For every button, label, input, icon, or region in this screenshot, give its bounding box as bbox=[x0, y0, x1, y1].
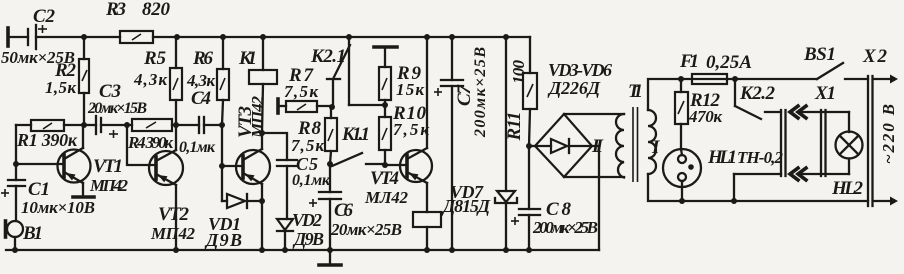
wire: top supply rail bbox=[153, 36, 530, 38]
transformer T1 bbox=[591, 81, 660, 182]
svg-text:С2: С2 bbox=[33, 6, 56, 27]
lamp HL2 bbox=[831, 112, 864, 199]
svg-text:7,5к: 7,5к bbox=[284, 82, 318, 101]
svg-text:С1: С1 bbox=[28, 179, 50, 200]
svg-text:20мк×15В: 20мк×15В bbox=[87, 100, 147, 117]
resistor R2 bbox=[45, 37, 89, 125]
svg-text:0,25А: 0,25А bbox=[706, 52, 752, 73]
svg-text:К1.1: К1.1 bbox=[341, 124, 370, 145]
ground bar left of C2 bbox=[6, 28, 10, 46]
svg-text:R4 390к: R4 390к bbox=[127, 133, 173, 152]
svg-text:4,3к: 4,3к bbox=[186, 71, 215, 90]
svg-text:0,1мк: 0,1мк bbox=[179, 139, 216, 156]
node bbox=[219, 163, 225, 169]
node bbox=[679, 198, 685, 204]
wire K2.1 column to R9/R10 node bbox=[349, 104, 385, 106]
svg-text:7,5к: 7,5к bbox=[291, 136, 324, 155]
resistor R1 bbox=[16, 120, 84, 150]
transistor VT1 bbox=[16, 125, 129, 195]
ground below rail bbox=[319, 250, 341, 265]
resistor R11 bbox=[504, 37, 537, 146]
svg-text:В1: В1 bbox=[22, 223, 43, 244]
svg-text:R1 390к: R1 390к bbox=[16, 130, 78, 150]
svg-text:Д226Д: Д226Д bbox=[547, 78, 601, 98]
svg-text:7,5к: 7,5к bbox=[393, 120, 429, 139]
capacitor C2 bbox=[1, 6, 75, 67]
neon lamp HL1 bbox=[663, 147, 784, 201]
svg-text:VТ1: VТ1 bbox=[93, 156, 123, 177]
connector X1 bbox=[734, 83, 849, 180]
svg-text:МЛ42: МЛ42 bbox=[364, 188, 409, 207]
resistor R5 bbox=[133, 37, 182, 125]
svg-text:4,3к: 4,3к bbox=[133, 70, 167, 89]
capacitor C7 bbox=[434, 37, 489, 250]
svg-text:R11: R11 bbox=[504, 112, 525, 142]
svg-text:820: 820 bbox=[142, 0, 171, 20]
svg-text:Д9В: Д9В bbox=[292, 229, 324, 249]
node bbox=[174, 34, 180, 40]
node bbox=[81, 34, 87, 40]
wire bbox=[735, 78, 817, 80]
wire bbox=[36, 36, 120, 38]
svg-text:200мк×25В: 200мк×25В bbox=[532, 218, 598, 237]
wire: bottom common rail bbox=[6, 249, 599, 251]
svg-text:Х2: Х2 bbox=[862, 46, 888, 67]
transistor VT2 bbox=[149, 125, 196, 243]
wire collector node to C5 bbox=[262, 133, 287, 160]
node bbox=[12, 247, 18, 253]
capacitor C8 bbox=[511, 146, 598, 250]
zener VD7 bbox=[441, 37, 517, 250]
transistor VT3 bbox=[222, 96, 270, 185]
node bbox=[259, 247, 265, 253]
node bbox=[219, 122, 225, 128]
svg-text:Д815Д: Д815Д bbox=[441, 196, 491, 216]
capacitor C5 bbox=[277, 154, 331, 219]
wire R8 node down to C6 bbox=[329, 164, 331, 192]
resistor R12 bbox=[675, 79, 722, 149]
connector X2 bbox=[862, 46, 898, 206]
diode VD1 bbox=[204, 194, 262, 250]
node bbox=[526, 247, 532, 253]
svg-text:С5: С5 bbox=[296, 154, 318, 174]
capacitor C6 bbox=[309, 192, 402, 250]
node bbox=[173, 247, 179, 253]
wire bbox=[15, 125, 17, 180]
svg-text:I: I bbox=[651, 137, 660, 158]
node bbox=[260, 34, 266, 40]
resistor R8 bbox=[291, 107, 337, 164]
svg-text:К1: К1 bbox=[238, 48, 257, 69]
switch K2.1 bbox=[310, 37, 350, 106]
fuse F1 bbox=[679, 51, 752, 84]
wire to VT2 base bbox=[127, 125, 156, 165]
wire bridge top to winding II bbox=[564, 113, 624, 115]
switch K2.2 bbox=[735, 79, 781, 119]
svg-text:0,1мк: 0,1мк bbox=[292, 172, 331, 189]
svg-text:R3: R3 bbox=[105, 0, 126, 20]
node bbox=[220, 34, 226, 40]
wire bridge right to bottom rail bbox=[592, 146, 599, 250]
svg-text:HL1: HL1 bbox=[707, 147, 737, 168]
svg-text:VТ2: VТ2 bbox=[158, 204, 190, 225]
svg-text:F1: F1 bbox=[679, 51, 699, 72]
resistor R4 bbox=[127, 119, 177, 152]
svg-text:~220 В: ~220 В bbox=[879, 104, 898, 164]
svg-text:С6: С6 bbox=[334, 200, 354, 221]
terminal bar above R9 bbox=[374, 47, 397, 67]
svg-text:20мк×25В: 20мк×25В bbox=[330, 220, 402, 239]
node bbox=[503, 247, 509, 253]
transistor VT4 bbox=[364, 37, 432, 207]
wire bbox=[8, 36, 28, 38]
node bbox=[449, 247, 455, 253]
node bbox=[259, 198, 265, 204]
relay coil K1 bbox=[238, 37, 277, 133]
node bbox=[173, 122, 179, 128]
svg-text:VD3-VD6: VD3-VD6 bbox=[548, 60, 612, 80]
node bbox=[382, 102, 388, 108]
wire bridge bottom to winding II bbox=[564, 176, 624, 178]
svg-text:К2.1: К2.1 bbox=[310, 46, 346, 67]
ground under VT1 bbox=[73, 183, 94, 197]
wire VT2 emitter to rail bbox=[175, 185, 177, 250]
node bbox=[13, 161, 19, 167]
capacitor C1 bbox=[1, 179, 95, 221]
capacitor C4 bbox=[177, 88, 222, 156]
node bbox=[382, 162, 388, 168]
node bbox=[259, 130, 265, 136]
svg-text:BS1: BS1 bbox=[803, 44, 836, 65]
svg-text:Х1: Х1 bbox=[814, 83, 836, 104]
svg-text:ТН-0,2: ТН-0,2 bbox=[737, 148, 784, 167]
node bbox=[327, 247, 333, 253]
wire X1 bottom return bbox=[733, 174, 735, 201]
capacitor C3 bbox=[84, 81, 147, 138]
node bbox=[449, 34, 455, 40]
svg-text:Д9В: Д9В bbox=[204, 230, 242, 250]
resistor R6 bbox=[186, 37, 229, 125]
svg-text:МП42: МП42 bbox=[89, 176, 129, 195]
resistor R7 bbox=[278, 65, 332, 112]
svg-text:R6: R6 bbox=[192, 48, 214, 69]
svg-text:С4: С4 bbox=[191, 88, 211, 109]
node bbox=[424, 247, 430, 253]
resistor R10 bbox=[379, 103, 429, 165]
node bbox=[526, 143, 532, 149]
wire VT3 emitter to rail bbox=[261, 184, 263, 250]
svg-text:470к: 470к bbox=[688, 107, 722, 126]
resistor R3 bbox=[105, 0, 171, 43]
node bbox=[329, 104, 335, 110]
svg-text:VD2: VD2 bbox=[292, 210, 322, 230]
node bbox=[678, 76, 684, 82]
node bbox=[346, 34, 352, 40]
svg-text:15к: 15к bbox=[396, 80, 424, 99]
microphone B1 bbox=[6, 221, 44, 250]
svg-text:100: 100 bbox=[509, 60, 528, 85]
diode VD2 bbox=[277, 210, 324, 250]
node bbox=[503, 34, 509, 40]
wire primary top lead bbox=[648, 79, 681, 110]
svg-text:С3: С3 bbox=[99, 81, 121, 102]
node bbox=[424, 34, 430, 40]
svg-text:Т1: Т1 bbox=[628, 81, 643, 102]
svg-text:R5: R5 bbox=[143, 48, 167, 69]
switch K1.1 bbox=[332, 124, 385, 166]
node bbox=[327, 161, 333, 167]
ground bar left of R7 bbox=[276, 99, 280, 113]
node bbox=[282, 247, 288, 253]
svg-text:II: II bbox=[591, 136, 604, 157]
svg-text:10мк×10В: 10мк×10В bbox=[21, 198, 95, 217]
svg-text:VТ4: VТ4 bbox=[370, 168, 399, 189]
svg-text:200мк×25В: 200мк×25В bbox=[472, 47, 489, 138]
node bbox=[732, 76, 738, 82]
relay coil K2 bbox=[413, 183, 441, 250]
svg-text:1,5к: 1,5к bbox=[45, 78, 76, 97]
svg-text:МП42: МП42 bbox=[150, 224, 196, 243]
resistor R9 bbox=[379, 63, 424, 105]
node bbox=[124, 122, 130, 128]
node bbox=[731, 198, 737, 204]
svg-text:HL2: HL2 bbox=[831, 178, 864, 199]
svg-text:К2.2: К2.2 bbox=[739, 83, 776, 104]
wire bridge left to node bbox=[529, 145, 535, 147]
wire primary bottom lead bbox=[648, 174, 868, 201]
node bbox=[81, 122, 87, 128]
switch BS1 bbox=[803, 44, 868, 79]
wire VT3 base column bbox=[221, 125, 223, 201]
bridge rectifier VD3-VD6 bbox=[535, 60, 612, 177]
